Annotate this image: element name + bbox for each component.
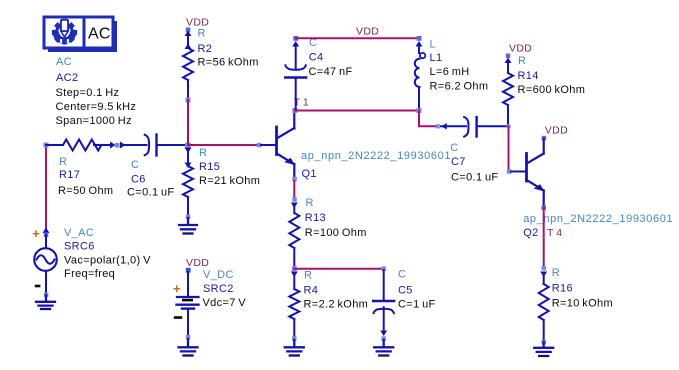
resistor R4	[289, 270, 368, 341]
node L1 bottom	[417, 108, 422, 113]
resistor R17	[58, 140, 116, 198]
resistor R15	[183, 147, 260, 219]
ground R16	[534, 342, 553, 356]
svg-text:Span=1000 Hz: Span=1000 Hz	[56, 115, 132, 127]
svg-text:R=600 kOhm: R=600 kOhm	[518, 84, 586, 96]
svg-text:R: R	[306, 197, 314, 209]
svg-text:Vdc=7 V: Vdc=7 V	[203, 297, 247, 309]
wire T1 net to L1	[295, 110, 419, 112]
ground C5	[374, 340, 393, 356]
svg-text:L=6 mH: L=6 mH	[430, 66, 470, 78]
svg-text:R17: R17	[59, 169, 80, 181]
svg-text:R15: R15	[199, 161, 220, 173]
svg-text:R: R	[518, 55, 526, 67]
source V_DC SRC2	[173, 268, 246, 340]
wire Q1 emitter to R13	[293, 181, 295, 199]
capacitor C4	[285, 36, 352, 109]
resistor R14	[503, 54, 585, 126]
svg-text:Q2: Q2	[523, 227, 538, 239]
wire node to Q1 base	[190, 144, 258, 146]
svg-text:AC: AC	[88, 26, 111, 43]
svg-text:ap_npn_2N2222_19930601: ap_npn_2N2222_19930601	[523, 213, 673, 225]
node input junction	[44, 143, 49, 148]
transistor Q2	[507, 136, 673, 239]
node bias junction	[185, 143, 191, 149]
svg-text:Freq=freq: Freq=freq	[64, 268, 115, 280]
svg-text:AC: AC	[56, 56, 72, 68]
resistor R13	[289, 197, 366, 268]
svg-text:R4: R4	[304, 285, 319, 297]
svg-text:SRC2: SRC2	[203, 283, 234, 295]
svg-text:V_AC: V_AC	[64, 227, 94, 239]
svg-text:Center=9.5 kHz: Center=9.5 kHz	[56, 101, 137, 113]
ground V_DC	[179, 339, 198, 356]
svg-text:+: +	[32, 226, 40, 241]
svg-text:R16: R16	[552, 283, 573, 295]
svg-text:C=47 nF: C=47 nF	[309, 66, 353, 78]
svg-text:SRC6: SRC6	[64, 241, 95, 253]
svg-text:C=0.1 uF: C=0.1 uF	[127, 187, 175, 199]
svg-text:R=2.2 kOhm: R=2.2 kOhm	[304, 299, 369, 311]
svg-text:C4: C4	[309, 52, 324, 64]
node Q1 collector	[292, 108, 297, 113]
svg-text:R: R	[198, 28, 206, 40]
svg-text:R2: R2	[198, 43, 213, 55]
svg-text:R=50 Ohm: R=50 Ohm	[58, 185, 113, 197]
svg-text:R=100 Ohm: R=100 Ohm	[305, 227, 367, 239]
svg-text:C=1 uF: C=1 uF	[398, 299, 436, 311]
AC simulation controller box	[44, 17, 117, 52]
svg-text:C=0.1 uF: C=0.1 uF	[451, 172, 499, 184]
svg-text:Vac=polar(1,0) V: Vac=polar(1,0) V	[64, 255, 151, 267]
svg-text:R=56 kOhm: R=56 kOhm	[198, 57, 259, 69]
svg-text:R: R	[59, 156, 67, 168]
svg-text:R=6.2 Ohm: R=6.2 Ohm	[430, 81, 489, 93]
capacitor C6	[120, 135, 186, 199]
svg-text:C5: C5	[398, 285, 413, 297]
resistor R16	[539, 266, 613, 344]
capacitor C7	[436, 117, 507, 184]
wire Q2 emitter to R16	[543, 208, 545, 268]
svg-text:C: C	[398, 269, 406, 281]
pin junction R17/C6	[115, 143, 120, 148]
svg-text:L: L	[430, 39, 436, 51]
wire junction to C5	[294, 268, 384, 270]
ground R4	[285, 340, 304, 356]
svg-text:R13: R13	[305, 212, 326, 224]
svg-text:+: +	[173, 281, 181, 296]
svg-text:R: R	[199, 147, 207, 159]
resistor R2	[183, 28, 259, 100]
svg-text:Step=0.1 Hz: Step=0.1 Hz	[56, 87, 120, 99]
svg-text:AC2: AC2	[56, 72, 78, 84]
svg-text:VDD: VDD	[545, 125, 568, 137]
node R13/R4 junction	[292, 266, 297, 271]
svg-text:VDD: VDD	[356, 26, 379, 38]
wire from node to R17	[46, 144, 63, 146]
svg-text:R=10 kOhm: R=10 kOhm	[552, 298, 613, 310]
VDD net wire C4-L1	[296, 37, 419, 39]
AC analysis text block AC2	[56, 56, 137, 127]
svg-text:T 4: T 4	[547, 227, 562, 239]
source V_AC SRC6	[32, 226, 151, 297]
svg-text:Q1: Q1	[302, 168, 317, 180]
svg-text:R=21 kOhm: R=21 kOhm	[199, 175, 260, 187]
svg-text:VDD: VDD	[186, 257, 209, 269]
svg-text:C6: C6	[131, 174, 146, 186]
svg-text:V_DC: V_DC	[203, 269, 234, 281]
ground V_AC	[36, 295, 55, 309]
wire junction to Q2 base	[508, 126, 510, 170]
capacitor C5	[373, 266, 435, 340]
ground R15	[179, 218, 197, 234]
svg-text:C: C	[450, 142, 458, 154]
transistor Q1	[257, 111, 451, 181]
gear icon in AC controller	[52, 20, 77, 45]
svg-text:ap_npn_2N2222_19930601: ap_npn_2N2222_19930601	[301, 150, 451, 162]
svg-text:R14: R14	[518, 70, 539, 82]
svg-text:VDD: VDD	[509, 43, 532, 55]
svg-text:C7: C7	[451, 156, 466, 168]
wire L1 to C7	[419, 111, 436, 127]
node C7/R14/Q2 junction	[507, 124, 511, 128]
wire input node column (V_AC to RC chain)	[45, 145, 47, 233]
inductor L1	[415, 36, 489, 109]
node R2 bottom	[186, 98, 191, 103]
wire R2 to bias node	[187, 100, 189, 145]
svg-text:C: C	[131, 159, 139, 171]
svg-text:L1: L1	[430, 52, 443, 64]
svg-text:R: R	[552, 267, 560, 279]
svg-text:R: R	[304, 270, 312, 282]
